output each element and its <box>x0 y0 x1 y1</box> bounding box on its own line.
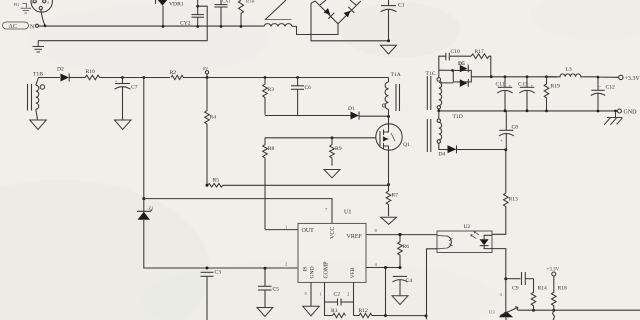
junction C3 <box>206 267 209 270</box>
svg-text:U1: U1 <box>344 210 351 216</box>
svg-text:C6: C6 <box>305 85 312 91</box>
junction 0V <box>206 76 209 79</box>
junction D5 box corner <box>451 69 454 72</box>
snubber C10 R17 <box>439 49 471 70</box>
wire Q1 source down <box>388 150 390 191</box>
svg-text:C3: C3 <box>215 270 222 276</box>
svg-text:FG: FG <box>14 2 21 7</box>
svg-text:C7: C7 <box>131 85 138 91</box>
junction R6 top <box>398 233 401 236</box>
junction GND tap <box>614 110 617 113</box>
resistor R13 <box>492 193 518 234</box>
svg-text:C8: C8 <box>512 125 519 131</box>
connector J1 circle <box>31 0 53 12</box>
junction CY2 top tap <box>196 5 199 8</box>
compensation COMP loop <box>325 282 354 315</box>
svg-text:C5: C5 <box>273 287 280 293</box>
wire opto cathode to U3 <box>492 249 506 312</box>
junction C6 top <box>296 76 299 79</box>
junction R18 bottom <box>552 309 555 312</box>
wire R12 row to opto <box>386 315 427 317</box>
svg-text:R17: R17 <box>475 49 485 55</box>
svg-text:R3: R3 <box>268 87 275 93</box>
wire R18 continuation cut <box>553 310 555 320</box>
capacitor C8 <box>499 111 518 150</box>
wire OUT pin <box>265 229 298 231</box>
junction <box>196 25 199 28</box>
junction R14 bottom <box>532 309 535 312</box>
svg-text:VREF: VREF <box>347 234 363 240</box>
ground under T1B <box>30 120 47 130</box>
junction <box>387 39 390 42</box>
junction <box>220 25 223 28</box>
resistor R4 <box>205 78 217 186</box>
svg-text:C12: C12 <box>606 84 616 90</box>
resistor R3 <box>263 78 275 115</box>
svg-text:C13: C13 <box>518 81 528 87</box>
junction <box>240 25 243 28</box>
svg-text:R4: R4 <box>210 115 217 121</box>
svg-text:IS: IS <box>302 267 308 272</box>
junction C13 bottom <box>526 109 529 112</box>
varistor VDR1 <box>156 0 184 26</box>
svg-text:N: N <box>30 24 35 30</box>
wire +3.3V rail <box>491 76 557 78</box>
capacitor C6 <box>291 78 311 116</box>
wire N main line <box>39 25 264 27</box>
capacitor C4 <box>393 276 413 295</box>
resistor R19 <box>544 77 560 111</box>
junction opto emitter <box>425 314 428 317</box>
capacitor C13 <box>518 77 535 111</box>
svg-text:CY2: CY2 <box>180 21 191 27</box>
diode D1 <box>348 106 389 119</box>
wire HV bus to T1A <box>205 77 389 79</box>
resistor R5 <box>207 178 388 188</box>
diode D4 <box>439 145 506 157</box>
svg-text:VFB: VFB <box>350 267 356 278</box>
node 0V <box>203 66 209 78</box>
diode D2 <box>57 67 85 82</box>
transformer T1C winding <box>426 70 442 119</box>
capacitor C3 <box>201 270 222 320</box>
FG wire <box>23 4 27 8</box>
resistor R12 <box>354 308 386 318</box>
junction snubber/rail <box>490 75 493 78</box>
ground under R7 <box>381 217 397 224</box>
bridge rectifier BR1 <box>311 0 361 24</box>
transformer T1D winding <box>427 114 462 152</box>
wire choke to bridge <box>292 24 338 35</box>
ground under C7 <box>115 120 132 130</box>
wire aux bus <box>123 77 171 79</box>
earth ground at N rail <box>33 41 45 52</box>
inductor L1 choke <box>264 0 292 26</box>
resistor R7 <box>386 191 398 216</box>
junction C13 <box>526 75 529 78</box>
svg-text:R12: R12 <box>359 308 369 314</box>
ground under C5 <box>257 308 273 317</box>
wire clamp bottom <box>265 115 351 117</box>
junction C7 <box>121 76 124 79</box>
junction R9 <box>331 136 334 139</box>
svg-text:OUT: OUT <box>302 228 315 234</box>
wire connector pin to N line <box>41 10 45 26</box>
svg-text:T1B: T1B <box>33 72 43 78</box>
terminal GND <box>617 109 637 116</box>
svg-text:+: + <box>115 79 118 84</box>
capacitor C5 <box>258 268 279 307</box>
svg-text:R10: R10 <box>86 69 96 75</box>
wire earth jog from CY2 <box>38 6 207 41</box>
svg-text:AC: AC <box>9 24 17 30</box>
junction x143 <box>142 76 145 79</box>
svg-text:VDR1: VDR1 <box>169 2 184 8</box>
svg-text:R9: R9 <box>335 146 342 152</box>
wire U3 ref row <box>518 309 640 311</box>
svg-text:Q1: Q1 <box>403 142 410 148</box>
junction <box>162 25 165 28</box>
svg-text:T1A: T1A <box>391 72 401 78</box>
svg-text:+3.3V: +3.3V <box>625 76 640 82</box>
ground under R9 <box>324 170 340 178</box>
svg-text:R19: R19 <box>551 83 561 89</box>
wire secondary gnd rail <box>439 110 616 112</box>
junction R19 bottom <box>545 110 548 113</box>
junction C12 <box>597 76 600 79</box>
wire opto emitter down <box>427 249 438 320</box>
svg-text:VCC: VCC <box>330 227 336 239</box>
capacitor C7 <box>115 78 138 120</box>
svg-text:CX1: CX1 <box>222 0 231 4</box>
svg-text:R18: R18 <box>558 286 568 292</box>
svg-text:D2: D2 <box>57 67 64 73</box>
junction center tap <box>437 109 440 112</box>
ground under C1 <box>381 45 397 54</box>
capacitor C12 <box>591 77 615 111</box>
wire R13 branch <box>505 150 507 193</box>
zener Z1 <box>137 78 154 267</box>
IC U1 <box>285 207 378 297</box>
FG earth ground <box>21 8 32 13</box>
dual diode D5 <box>439 61 492 87</box>
terminal +3.3V <box>598 75 640 82</box>
svg-text:D4: D4 <box>439 152 446 158</box>
shunt regulator U3 <box>489 292 518 320</box>
junction C11 bottom <box>504 109 507 112</box>
svg-text:C10: C10 <box>451 49 461 55</box>
capacitor C9 <box>506 272 534 292</box>
svg-text:0V: 0V <box>203 66 209 71</box>
svg-text:a: a <box>47 0 49 4</box>
svg-text:L3: L3 <box>566 66 572 72</box>
svg-text:R7: R7 <box>392 193 399 199</box>
resistor R14 <box>531 279 547 311</box>
capacitor CY2 <box>180 0 204 27</box>
svg-text:COMP: COMP <box>324 261 330 279</box>
junction C5 <box>264 267 267 270</box>
capacitor CX1 <box>215 0 228 26</box>
MOSFET Q1 <box>376 117 410 150</box>
svg-text:C2: C2 <box>334 292 341 298</box>
capacitor C11 <box>496 77 513 111</box>
resistor R1 <box>331 308 346 318</box>
svg-text:R14: R14 <box>538 286 548 292</box>
svg-text:U3: U3 <box>489 310 495 315</box>
resistor R (discharge) <box>239 0 244 26</box>
svg-text:R13: R13 <box>509 197 519 203</box>
AC oval label <box>3 22 29 30</box>
junction R5 left <box>206 184 209 187</box>
resistor R10 <box>85 69 123 80</box>
inductor L3 <box>547 66 598 77</box>
ground under C4 <box>392 296 408 305</box>
junction <box>44 24 47 27</box>
svg-text:+: + <box>500 138 503 143</box>
junction C11 <box>504 75 507 78</box>
junction R6 bottom <box>399 266 402 269</box>
svg-text:C1: C1 <box>398 3 405 9</box>
resistor R6 <box>398 235 410 268</box>
wire VCC supply <box>144 199 332 224</box>
svg-text:GND: GND <box>310 266 316 278</box>
wire pin4 VFB node <box>366 267 400 269</box>
svg-text:R8: R8 <box>268 146 275 152</box>
svg-text:R5: R5 <box>213 178 220 184</box>
junction R19 <box>545 75 548 78</box>
junction Q1 source <box>387 183 390 186</box>
junction pin4 <box>384 266 387 269</box>
svg-text:U2: U2 <box>464 224 471 230</box>
ground under IC GND pin <box>303 282 320 315</box>
wire VREF row <box>366 234 437 236</box>
junction VFB drop <box>384 314 387 317</box>
resistor R17 <box>471 49 491 77</box>
wire VFB to bottom row <box>385 268 387 316</box>
junction D4 C8 R13 <box>504 148 507 151</box>
junction R3 top <box>264 76 267 79</box>
junction VCC tap <box>142 197 145 200</box>
resistor R9 <box>330 138 342 166</box>
resistor R18 <box>552 276 568 310</box>
transformer T1A winding <box>382 72 400 117</box>
resistor R2 <box>170 70 205 79</box>
optocoupler U2 <box>437 224 492 253</box>
svg-text:R6: R6 <box>403 244 410 250</box>
svg-text:D1: D1 <box>348 106 355 112</box>
+3.3V terminal top right feedback <box>547 268 560 277</box>
svg-text:C11: C11 <box>496 81 505 87</box>
wire IS row <box>144 267 298 269</box>
svg-text:GND: GND <box>624 110 638 116</box>
earth ground output <box>604 111 623 125</box>
junction C12 bottom <box>597 110 600 113</box>
svg-text:T1D: T1D <box>453 114 463 120</box>
svg-text:C9: C9 <box>512 286 519 292</box>
wire bridge minus rail <box>311 3 390 41</box>
wire gate <box>265 137 376 139</box>
svg-text:C4: C4 <box>406 278 413 284</box>
junction drain node <box>387 115 390 118</box>
resistor R8 gate drive <box>263 138 275 230</box>
junction C9 tap <box>504 277 507 280</box>
svg-text:R1B: R1B <box>246 0 254 4</box>
transformer T1B winding <box>28 72 61 120</box>
N terminal circle <box>35 24 38 27</box>
svg-text:T1C: T1C <box>426 71 436 77</box>
capacitor C1 <box>381 0 405 41</box>
